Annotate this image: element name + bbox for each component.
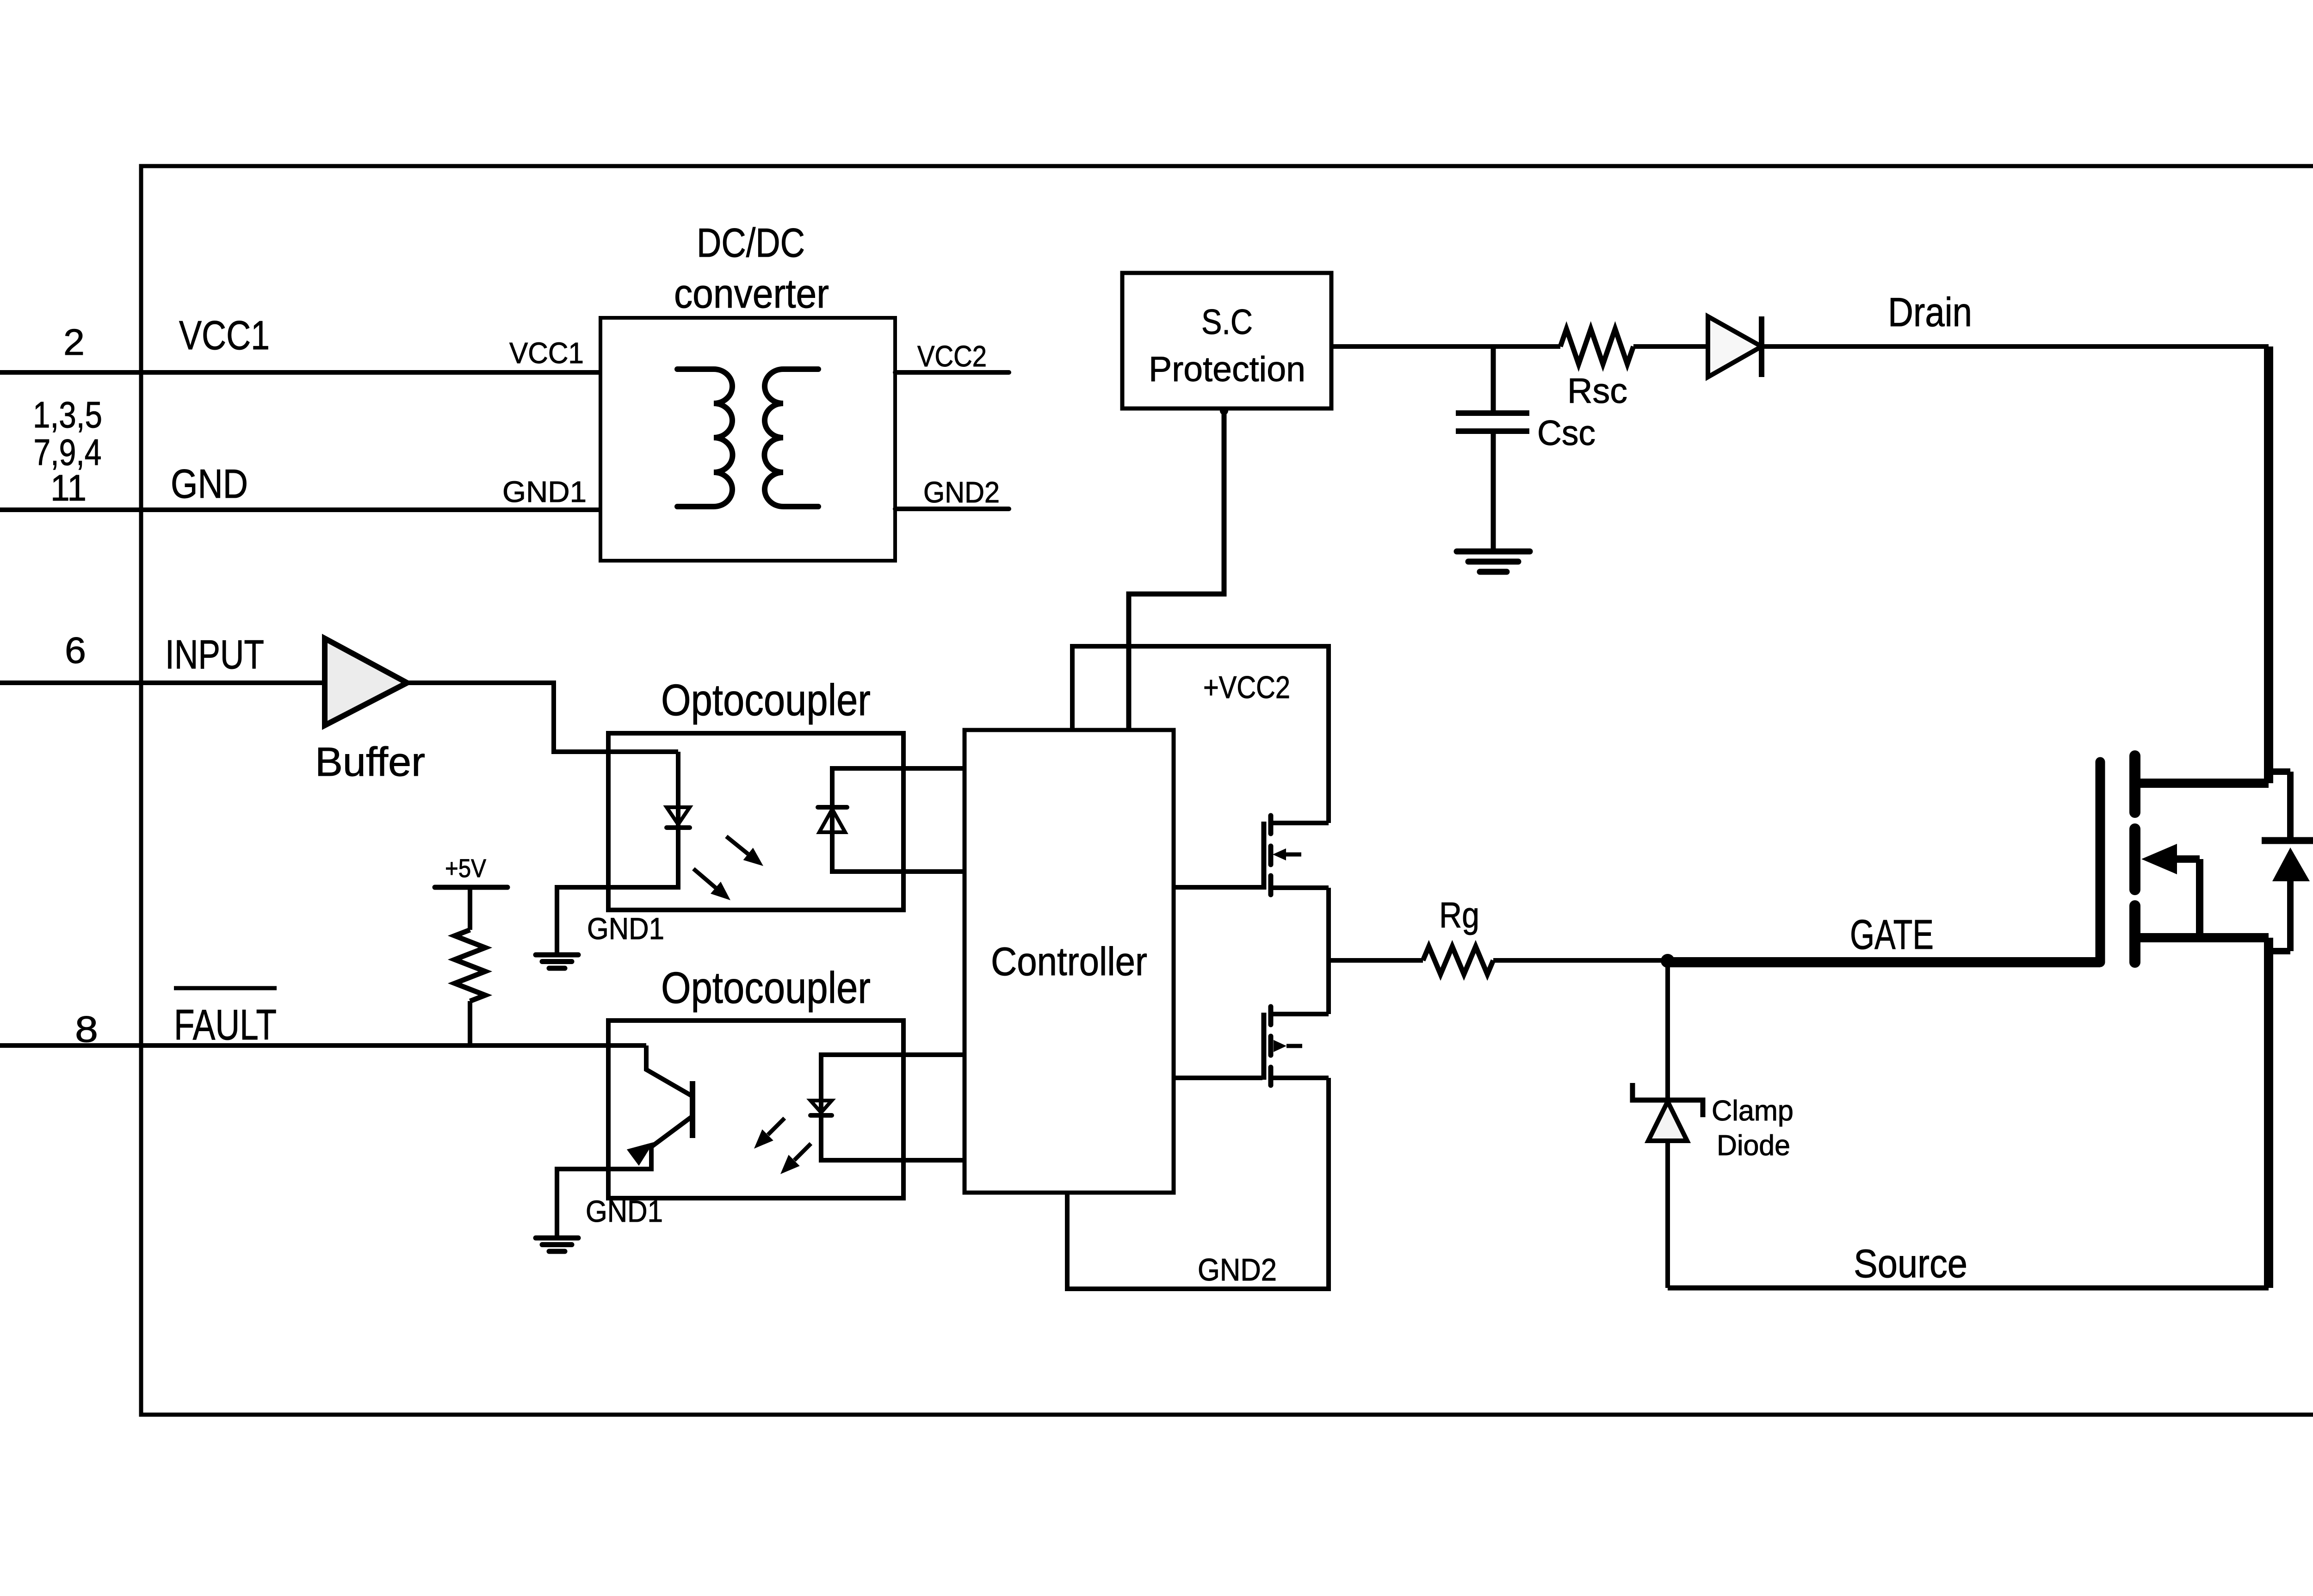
svg-text:GND1: GND1 bbox=[502, 475, 587, 508]
svg-text:VCC1: VCC1 bbox=[179, 312, 270, 358]
transformer T1 primary winding bbox=[677, 369, 733, 507]
optocoupler U3 phototransistor base bar bbox=[690, 1081, 695, 1138]
wire gate node down to clamp diode bbox=[1665, 961, 1670, 1102]
gate node junction dot bbox=[1661, 954, 1675, 968]
pins 1,3,5,7,9,4,11 wire (GND input) bbox=[0, 507, 600, 512]
optocoupler U3 emitter wire to GND1 bbox=[557, 1146, 651, 1238]
capacitor Csc bbox=[1456, 410, 1529, 416]
ground GND1 (optocoupler U2) bbox=[536, 953, 578, 958]
svg-text:INPUT: INPUT bbox=[165, 631, 264, 677]
optocoupler U2 LED diode bbox=[667, 807, 690, 824]
svg-text:Buffer: Buffer bbox=[315, 739, 425, 785]
transistor Q1 source stub bbox=[1272, 885, 1329, 890]
body diode D3 connection wires bbox=[2269, 768, 2290, 775]
transistor Q1 gate bar bbox=[1262, 822, 1267, 890]
optocoupler U2 box bbox=[608, 733, 903, 910]
controller block box bbox=[965, 730, 1174, 1193]
wire +5V to pull-up resistor bbox=[468, 887, 472, 930]
power MOSFET Q3 drain terminal bbox=[2135, 779, 2269, 788]
svg-text:+5V: +5V bbox=[445, 854, 487, 883]
power MOSFET Q3 source trunk bbox=[2264, 938, 2273, 1288]
wire Rsc to diode D1 bbox=[1633, 344, 1708, 349]
buffer U1 (input triangle) bbox=[325, 638, 407, 725]
Drain wire to power MOSFET bbox=[1762, 344, 2269, 349]
optocoupler U2 photodiode cathode wire bbox=[832, 768, 965, 872]
+5V supply rail bbox=[435, 885, 507, 890]
svg-text:Csc: Csc bbox=[1537, 414, 1596, 453]
optocoupler U3 light arrow 1 bbox=[768, 1118, 785, 1135]
optocoupler U2 LED cathode wire to GND1 bbox=[557, 826, 678, 955]
svg-text:Diode: Diode bbox=[1717, 1130, 1790, 1162]
power MOSFET Q3 gate bar bbox=[2096, 762, 2105, 962]
optocoupler U3 phototransistor emitter with arrow bbox=[651, 1117, 691, 1147]
wire driver output to Rg bbox=[1329, 958, 1423, 963]
svg-text:+VCC2: +VCC2 bbox=[1203, 670, 1290, 705]
FAULT overline bar bbox=[174, 986, 277, 990]
S.C Protection block box bbox=[1122, 273, 1331, 408]
svg-text:Protection: Protection bbox=[1149, 350, 1305, 389]
transistor Q1 (upper driver MOSFET) gate wire bbox=[1174, 885, 1262, 890]
DC/DC converter block box bbox=[600, 318, 895, 561]
svg-text:7,9,4: 7,9,4 bbox=[34, 432, 102, 473]
transistor Q2 body arrow bbox=[1274, 1040, 1286, 1052]
pin 8 wire (FAULT) bbox=[0, 1043, 646, 1048]
svg-text:converter: converter bbox=[674, 271, 829, 316]
transistor Q2 drain stub bbox=[1272, 1012, 1329, 1016]
svg-text:6: 6 bbox=[65, 630, 86, 671]
transformer T1 secondary winding bbox=[764, 369, 818, 507]
svg-text:GATE: GATE bbox=[1850, 912, 1934, 958]
body diode D3 triangle bbox=[2272, 847, 2310, 881]
svg-text:GND1: GND1 bbox=[586, 1194, 663, 1228]
svg-text:11: 11 bbox=[50, 467, 87, 508]
svg-text:Source: Source bbox=[1854, 1242, 1967, 1286]
optocoupler U3 phototransistor collector wire bbox=[646, 1045, 691, 1095]
svg-text:VCC2: VCC2 bbox=[917, 340, 987, 373]
transistor Q1 drain stub bbox=[1272, 821, 1329, 825]
optocoupler U3 light arrow 2 bbox=[794, 1144, 811, 1160]
svg-text:2: 2 bbox=[63, 322, 85, 363]
optocoupler U2 light arrow 1 bbox=[726, 836, 748, 854]
clamp diode D2 triangle bbox=[1648, 1101, 1687, 1141]
resistor Rsc bbox=[1560, 329, 1633, 364]
optocoupler U3 LED anode wire bbox=[821, 1055, 965, 1160]
optocoupler U2 photodiode bbox=[818, 805, 847, 810]
transistor Q2 (lower driver MOSFET) gate wire bbox=[1174, 1076, 1262, 1080]
transistor Q2 source stub bbox=[1272, 1076, 1329, 1080]
svg-text:Optocoupler: Optocoupler bbox=[661, 963, 871, 1013]
power MOSFET Q3 source terminal bbox=[2135, 933, 2269, 942]
wire resistor to FAULT line bbox=[468, 1001, 472, 1045]
svg-text:Clamp: Clamp bbox=[1712, 1095, 1794, 1127]
transistor Q2 gate bar bbox=[1262, 1013, 1267, 1080]
svg-text:GND2: GND2 bbox=[923, 476, 1000, 509]
clamp diode D2 (zener) cathode bar bbox=[1633, 1083, 1703, 1117]
outer border frame of gate-driver module bbox=[141, 166, 2313, 1415]
svg-text:GND: GND bbox=[171, 461, 248, 507]
optocoupler U3 box bbox=[608, 1021, 903, 1198]
transistor Q2 channel segments bbox=[1268, 1007, 1274, 1025]
body diode D3 cathode bar bbox=[2262, 837, 2313, 844]
svg-text:VCC1: VCC1 bbox=[509, 336, 584, 370]
resistor Rg bbox=[1423, 946, 1493, 974]
GND2 return net wires bbox=[1067, 1078, 1329, 1289]
wire S.C protection output to Csc node bbox=[1331, 344, 1560, 349]
svg-text:Drain: Drain bbox=[1888, 289, 1972, 335]
svg-text:GND1: GND1 bbox=[587, 911, 664, 946]
junction at S.C protection box bottom bbox=[1220, 407, 1228, 415]
diode D1 bbox=[1708, 316, 1762, 377]
pin 6 wire (INPUT) bbox=[0, 680, 326, 685]
svg-text:8: 8 bbox=[75, 1008, 98, 1050]
svg-text:GND2: GND2 bbox=[1198, 1252, 1277, 1287]
wire Csc to ground bbox=[1491, 431, 1496, 551]
wire S.C protection to controller VCC2 node bbox=[1129, 408, 1224, 730]
VCC2 output stub wire bbox=[895, 370, 1009, 375]
wire Csc node down to capacitor bbox=[1491, 346, 1496, 413]
svg-text:DC/DC: DC/DC bbox=[697, 220, 805, 266]
svg-text:Optocoupler: Optocoupler bbox=[661, 675, 871, 725]
optocoupler U3 LED diode bbox=[810, 1101, 832, 1113]
ground (Csc) bbox=[1457, 549, 1530, 555]
ground GND1 (optocoupler U3) bbox=[536, 1236, 578, 1241]
svg-text:Rsc: Rsc bbox=[1567, 371, 1627, 411]
svg-text:Rg: Rg bbox=[1439, 895, 1479, 935]
power MOSFET Q3 body arrow bbox=[2174, 855, 2200, 863]
pull-up resistor R1 bbox=[455, 930, 485, 1001]
svg-text:Controller: Controller bbox=[991, 940, 1147, 984]
wire clamp diode to source rail bbox=[1665, 1141, 1670, 1288]
wire buffer output to optocoupler 1 LED bbox=[407, 683, 678, 752]
Source rail wire bbox=[1668, 1286, 2269, 1291]
GATE thick wire to power MOSFET bbox=[1668, 957, 2100, 967]
power MOSFET Q3 channel segments bbox=[2129, 756, 2140, 812]
driver output node trunk wire bbox=[1326, 888, 1331, 1014]
svg-text:S.C: S.C bbox=[1201, 303, 1253, 342]
GND2 output stub wire bbox=[895, 507, 1009, 511]
power MOSFET Q3 drain trunk bbox=[2264, 346, 2273, 783]
svg-text:1,3,5: 1,3,5 bbox=[33, 394, 102, 435]
pin 2 wire (VCC1 input) bbox=[0, 370, 600, 375]
transistor Q1 channel segments bbox=[1268, 816, 1274, 834]
svg-text:FAULT: FAULT bbox=[174, 1001, 277, 1049]
+VCC2 supply net wires bbox=[1072, 646, 1329, 823]
transistor Q1 body arrow bbox=[1283, 853, 1301, 857]
optocoupler U2 LED anode wire bbox=[676, 752, 680, 829]
wire Rg to gate node bbox=[1493, 958, 1668, 963]
optocoupler U2 light arrow 2 bbox=[693, 869, 716, 888]
